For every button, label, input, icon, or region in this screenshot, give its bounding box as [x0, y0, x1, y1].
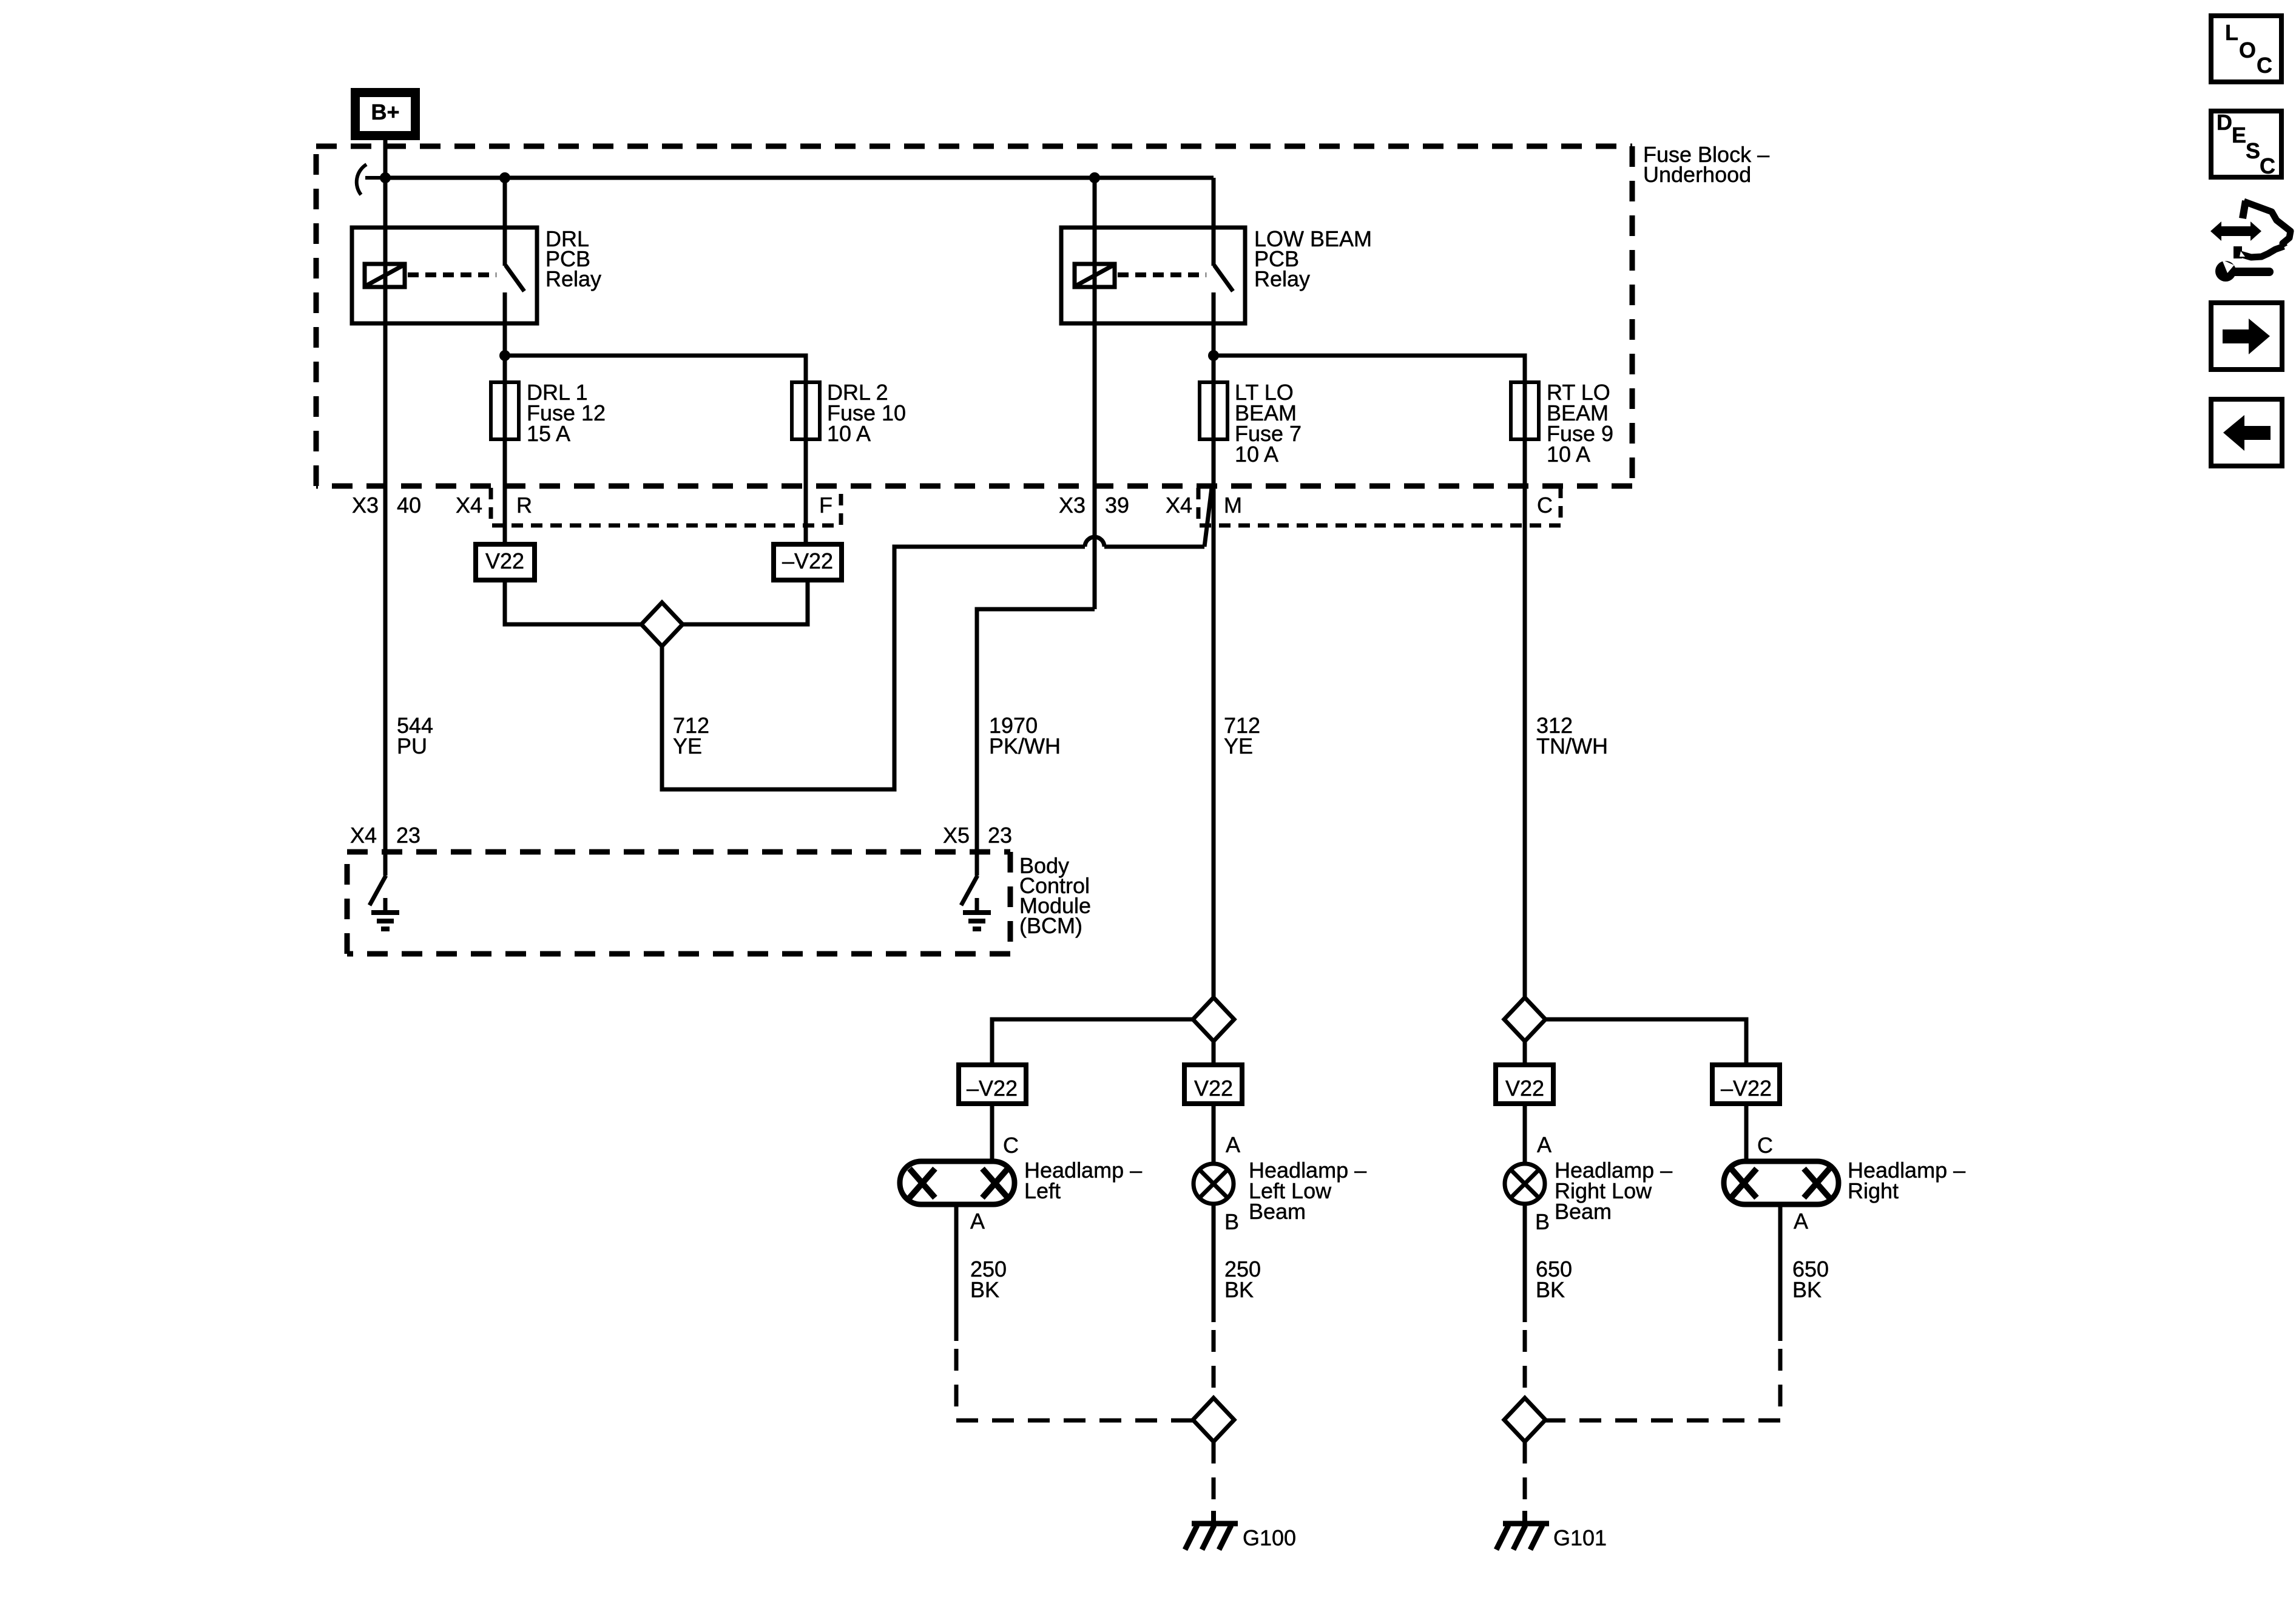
connector box -V22 upper — [774, 544, 842, 580]
wire 650 BK right low ground — [1523, 1204, 1527, 1322]
pin labels X3 39 — [1059, 493, 1129, 518]
junction dot B+ bus — [380, 172, 391, 183]
wire 250 BK left low ground — [1212, 1204, 1216, 1322]
lamp right low beam — [1505, 1164, 1545, 1204]
headlamp left capsule — [900, 1161, 1015, 1204]
pin labels X3 40 — [352, 493, 421, 518]
svg-text:C: C — [2260, 154, 2275, 178]
connector X4 M-C dotted box — [1198, 488, 1561, 525]
label Headlamp - Left — [1024, 1158, 1142, 1203]
fuse RT LO BEAM Fuse 9 — [1511, 382, 1539, 439]
label 712 YE — [1224, 713, 1260, 758]
wire DRL1 fuse vertical — [503, 356, 507, 544]
junction dot DRL switch feed — [499, 172, 510, 183]
wire -V22 to headlamp right pin C — [1744, 1104, 1749, 1163]
svg-text:23: 23 — [988, 823, 1012, 848]
icon DESC box — [2211, 110, 2281, 178]
svg-text:B+: B+ — [371, 100, 399, 124]
svg-text:M: M — [1224, 493, 1242, 518]
BCM switch X4-23 — [370, 852, 386, 905]
svg-text:23: 23 — [396, 823, 420, 848]
svg-text:X4: X4 — [1166, 493, 1192, 518]
bus continuation hook — [357, 164, 385, 195]
svg-text:BK: BK — [1224, 1277, 1254, 1302]
wire bus B+ horizontal — [385, 176, 1214, 180]
svg-text:–V22: –V22 — [967, 1076, 1018, 1101]
svg-text:X3: X3 — [1059, 493, 1086, 518]
wire hop over X3-39 wire — [1085, 537, 1104, 547]
wire 650 BK headlamp right ground — [1778, 1204, 1783, 1341]
label 312 TN/WH — [1536, 713, 1608, 758]
svg-text:39: 39 — [1105, 493, 1129, 518]
wire LT LO BEAM fuse vertical 712 YE — [1212, 356, 1216, 1163]
svg-text:R: R — [516, 493, 532, 518]
BCM ground left — [371, 898, 399, 929]
svg-text:PK/WH: PK/WH — [989, 734, 1061, 758]
svg-text:A: A — [1226, 1132, 1240, 1157]
label 712 YE splice segment — [673, 713, 709, 758]
relay LOW BEAM switch — [1214, 178, 1233, 356]
svg-text:A: A — [1537, 1132, 1551, 1157]
relay DRL switch — [505, 178, 524, 356]
icon arrow right box — [2211, 303, 2282, 370]
wire splice S2 to V22 — [1212, 1041, 1216, 1065]
fuse DRL2 Fuse 10 — [792, 382, 820, 439]
wire -V22 to splice — [683, 580, 808, 624]
svg-text:Beam: Beam — [1555, 1199, 1612, 1224]
svg-text:X5: X5 — [943, 823, 970, 848]
relay LOW BEAM PCB box — [1061, 228, 1245, 323]
ground G100 — [1185, 1511, 1238, 1550]
label Headlamp - Right — [1848, 1158, 1965, 1203]
BCM switch X5-23 — [961, 852, 977, 905]
svg-text:V22: V22 — [1505, 1076, 1544, 1101]
connector box -V22 left low — [959, 1065, 1026, 1104]
svg-text:–V22: –V22 — [782, 549, 833, 573]
svg-text:C: C — [1003, 1133, 1019, 1158]
icon hand and wrench — [2210, 201, 2291, 282]
wire LOW BEAM coil drop X3-39 — [1093, 178, 1097, 609]
label RT LO BEAM Fuse 9 10 A — [1547, 380, 1613, 467]
wire branch to DRL2 fuse — [505, 356, 806, 382]
wire RT LO BEAM fuse vertical 312 TN/WH — [1523, 382, 1527, 999]
label Body Control Module (BCM) — [1019, 853, 1091, 938]
svg-text:V22: V22 — [485, 549, 524, 573]
pin labels X4 R — [456, 493, 532, 518]
svg-text:Relay: Relay — [1254, 266, 1310, 291]
wire 712 YE from splice to pin M — [662, 547, 1085, 789]
label Headlamp - Left Low Beam — [1249, 1158, 1366, 1224]
wire V22 to right low beam pin A — [1523, 1104, 1527, 1164]
label DRL PCB Relay — [545, 226, 601, 291]
relay DRL PCB box — [352, 228, 537, 323]
svg-text:C: C — [1757, 1133, 1773, 1158]
pin labels X4 M — [1166, 493, 1242, 518]
pin labels X4 23 — [350, 823, 420, 848]
label 1970 PK/WH — [989, 713, 1061, 758]
wire splice S3 to -V22 right — [1545, 1019, 1746, 1065]
svg-text:X3: X3 — [352, 493, 379, 518]
svg-text:S: S — [2246, 138, 2260, 163]
svg-text:BK: BK — [970, 1277, 999, 1302]
wire diagonal into pin M — [1204, 488, 1212, 547]
svg-text:G100: G100 — [1243, 1525, 1296, 1550]
label LT LO BEAM Fuse 7 10 A — [1235, 380, 1302, 467]
ground G101 — [1496, 1511, 1549, 1550]
svg-text:C: C — [1537, 493, 1553, 518]
svg-text:B: B — [1224, 1209, 1239, 1234]
junction dot DRL fuses split — [499, 350, 510, 361]
wire 1970 PK/WH jog to X5-23 — [977, 609, 1095, 852]
svg-text:40: 40 — [397, 493, 421, 518]
svg-text:10 A: 10 A — [827, 421, 871, 446]
label 250 BK right — [1224, 1257, 1261, 1302]
connector box V22 upper — [476, 544, 535, 580]
BCM dashed box — [347, 852, 1010, 954]
svg-text:YE: YE — [673, 734, 702, 758]
splice S4 diamond G100 — [1193, 1398, 1234, 1442]
svg-text:V22: V22 — [1194, 1076, 1233, 1101]
headlamp right capsule — [1724, 1161, 1838, 1204]
svg-text:10 A: 10 A — [1235, 442, 1278, 467]
svg-text:A: A — [970, 1209, 985, 1234]
label LOW BEAM PCB Relay — [1254, 226, 1372, 291]
label 250 BK left — [970, 1257, 1007, 1302]
connector X4 R-F dotted box — [491, 488, 841, 525]
svg-text:X4: X4 — [350, 823, 377, 848]
splice S2 diamond left low — [1193, 998, 1234, 1041]
svg-text:PU: PU — [397, 734, 427, 758]
svg-text:YE: YE — [1224, 734, 1253, 758]
splice S5 diamond G101 — [1504, 1398, 1545, 1442]
svg-text:O: O — [2239, 38, 2256, 62]
svg-text:Right: Right — [1848, 1178, 1899, 1203]
wire V22 to left low beam pin A — [1212, 1104, 1216, 1164]
svg-text:D: D — [2217, 110, 2232, 135]
label 650 BK right — [1792, 1257, 1829, 1302]
wire 250 BK headlamp left ground — [954, 1204, 959, 1341]
wire splice S4 to G100 — [1212, 1442, 1216, 1519]
svg-text:Beam: Beam — [1249, 1199, 1306, 1224]
fuse LT LO BEAM Fuse 7 — [1200, 382, 1227, 439]
wire V22 to splice — [505, 580, 641, 624]
label DRL 1 Fuse 12 15 A — [527, 380, 606, 446]
BCM ground right — [963, 898, 991, 929]
svg-text:BK: BK — [1792, 1277, 1822, 1302]
relay LOW BEAM coil — [1075, 264, 1115, 287]
splice S3 diamond right low — [1504, 998, 1545, 1041]
connector box V22 left low — [1184, 1065, 1242, 1104]
relay LOW BEAM coil-switch dashed link — [1118, 272, 1206, 277]
icon LOC box — [2211, 16, 2281, 82]
connector box -V22 right low — [1712, 1065, 1780, 1104]
icon arrow left box — [2211, 399, 2282, 466]
label 544 PU — [397, 713, 433, 758]
svg-text:Relay: Relay — [545, 266, 601, 291]
lamp left low beam — [1194, 1164, 1234, 1204]
battery terminal B+ — [356, 93, 416, 136]
pin labels X5 23 — [943, 823, 1012, 848]
svg-text:–V22: –V22 — [1721, 1076, 1772, 1101]
svg-text:10 A: 10 A — [1547, 442, 1590, 467]
wire DRL2 fuse vertical — [804, 382, 808, 544]
svg-text:15 A: 15 A — [527, 421, 570, 446]
junction dot low beam fuses split — [1208, 350, 1219, 361]
svg-text:B: B — [1535, 1209, 1550, 1234]
label Headlamp - Right Low Beam — [1555, 1158, 1672, 1224]
fuse block underhood dashed box — [316, 146, 1632, 486]
wire splice S5 to G101 — [1523, 1442, 1527, 1519]
svg-text:F: F — [819, 493, 832, 518]
svg-text:G101: G101 — [1553, 1525, 1607, 1550]
svg-text:E: E — [2232, 123, 2246, 147]
wire -V22 to headlamp left pin C — [990, 1104, 994, 1163]
wire B+ feed vertical X3-40 — [383, 135, 388, 852]
connector box V22 right low — [1496, 1065, 1553, 1104]
wire branch to RT LO BEAM fuse — [1214, 356, 1525, 382]
label 650 BK left — [1536, 1257, 1572, 1302]
svg-text:(BCM): (BCM) — [1019, 913, 1082, 938]
svg-text:C: C — [2257, 53, 2272, 78]
label DRL 2 Fuse 10 10 A — [827, 380, 906, 446]
wire splice S2 to -V22 left — [992, 1019, 1193, 1065]
relay DRL coil — [365, 264, 405, 287]
svg-text:TN/WH: TN/WH — [1536, 734, 1608, 758]
svg-text:Underhood: Underhood — [1643, 162, 1751, 187]
svg-text:Left: Left — [1024, 1178, 1061, 1203]
relay DRL coil-switch dashed link — [408, 272, 496, 277]
wire splice S3 to V22 right — [1523, 1041, 1527, 1065]
svg-text:A: A — [1794, 1209, 1808, 1234]
junction dot LOW BEAM coil feed — [1089, 172, 1100, 183]
label Fuse Block - Underhood — [1643, 142, 1769, 187]
svg-text:BK: BK — [1536, 1277, 1565, 1302]
fuse DRL1 Fuse 12 — [491, 382, 519, 439]
splice S1 diamond — [641, 603, 683, 646]
svg-text:X4: X4 — [456, 493, 482, 518]
svg-text:L: L — [2225, 20, 2238, 45]
